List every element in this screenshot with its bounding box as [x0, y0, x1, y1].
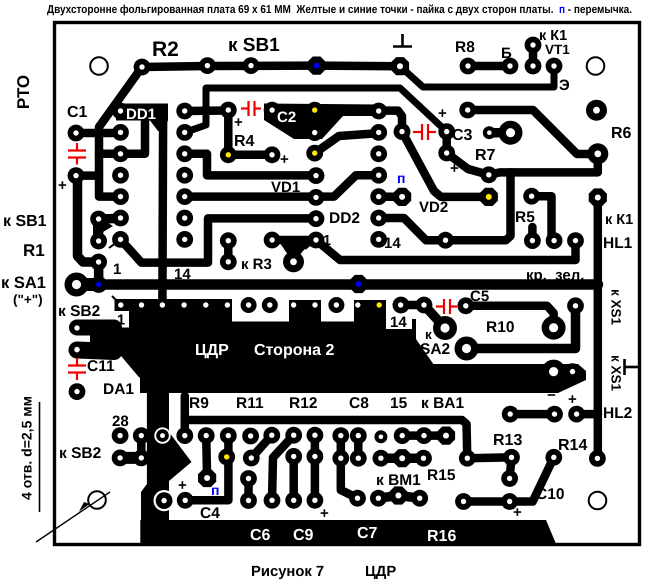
resistor R10 wire [467, 306, 576, 349]
pad DA1 pin21 [285, 427, 302, 444]
svg-text:28: 28 [112, 413, 129, 430]
pad R12 mid [285, 448, 302, 465]
svg-text:к R3: к R3 [241, 256, 272, 273]
resistor R4 vertical trace [224, 110, 233, 155]
wire R12 vertical b [311, 435, 320, 500]
pad C3 minus [438, 145, 455, 162]
pad к K1 hex [589, 188, 607, 206]
pad C1 plus [68, 167, 85, 184]
pad к SA2 big [433, 316, 457, 340]
svg-text:+: + [58, 177, 67, 194]
wire DD1 right pin y154 elbow to VD1 pad [185, 154, 316, 176]
svg-text:+: + [450, 160, 459, 177]
svg-text:14: 14 [384, 235, 401, 252]
pad in lobe [74, 347, 79, 352]
pad DD1 pin 4 [112, 167, 129, 184]
pad R11 b [243, 450, 260, 467]
wire DD1 triangle tail down to DA1 pad [158, 122, 167, 304]
white pocket for label 1 [115, 311, 130, 328]
pad VD2 yellow hex [480, 188, 498, 206]
pad DD1 pin 1 [112, 103, 129, 120]
pad C3 plus [438, 123, 455, 140]
pad C5 left [457, 297, 474, 314]
pad green wire [567, 232, 584, 249]
svg-text:к BM1: к BM1 [376, 472, 421, 489]
pad C9 b [285, 492, 302, 509]
pad HL1 net bottom [589, 450, 606, 467]
slab diagonal to band [416, 339, 434, 365]
wire DD1 pin to top bus y=88 to C3 [185, 88, 447, 132]
svg-text:R12: R12 [289, 395, 317, 412]
svg-text:−: − [547, 387, 556, 404]
svg-text:к К1: к К1 [605, 212, 633, 228]
wire DD1 pin14 to R4 top [185, 106, 229, 115]
svg-text:R6: R6 [611, 125, 632, 142]
pad SB2 c [133, 427, 150, 444]
pad R7 a [483, 126, 496, 139]
pad DA1 pin28 [112, 427, 129, 444]
pad DD2 pin 1 [370, 103, 387, 120]
capacitor C2 red symbol [241, 101, 261, 116]
pad red wire [524, 232, 541, 249]
svg-text:R10: R10 [486, 319, 514, 336]
svg-text:SA2: SA2 [420, 341, 450, 358]
svg-text:Э: Э [559, 77, 570, 94]
pad DD2 pin 6 [370, 210, 387, 227]
svg-text:к XS1: к XS1 [609, 355, 624, 392]
capacitor C3 vertical trace [442, 132, 451, 153]
svg-text:R13: R13 [493, 432, 522, 449]
dimension arrow to mounting hole [36, 492, 110, 542]
pad HL2 minus a [502, 406, 519, 423]
pad on rail [437, 232, 454, 249]
fill к R3 big pad triangle [280, 243, 310, 258]
wire C1 plus rail down to SA1 [78, 176, 99, 262]
pad HL b in band [564, 363, 581, 380]
pad C4 yellow [218, 449, 235, 466]
svg-text:R15: R15 [427, 467, 456, 484]
pad R3 top [220, 232, 237, 249]
ground symbol top [393, 34, 412, 47]
pad C8 bot a [332, 450, 349, 467]
pad C10 a [455, 493, 472, 510]
pad emitter [546, 58, 563, 75]
wire DD2 pin1 elbow to via pad [381, 111, 402, 132]
capacitor C11 red symbol [68, 358, 86, 380]
resistor R3 vertical trace [224, 241, 233, 262]
pad DD1 pin 2 [112, 124, 129, 141]
pad HL2 minus b [546, 406, 563, 423]
svg-text:+: + [438, 105, 447, 122]
capacitor C5 red symbol [436, 299, 457, 314]
pad SA2 b [416, 297, 433, 314]
pad DD1 pin 7 [112, 231, 129, 248]
slab band bottom right [416, 364, 586, 393]
pad DD1 pin 14 [176, 103, 193, 120]
capacitor C6 legs [244, 479, 253, 501]
pad к SB2 top hole [74, 325, 79, 330]
pad SB1 a [199, 57, 216, 74]
svg-text:14: 14 [174, 266, 191, 283]
pad R1 b [90, 254, 107, 271]
wire DD1 blob down to pin y154 [121, 119, 145, 154]
pad R7 big [499, 121, 523, 145]
svg-text:R7: R7 [475, 147, 496, 164]
wire DD1 pin7 to VD1 pad y218 [121, 218, 317, 262]
pad C7 a [349, 490, 366, 507]
pad DA1 pin 9 [291, 302, 296, 307]
svg-text:C4: C4 [200, 505, 220, 522]
pad R14 bottom [545, 449, 562, 466]
svg-text:1: 1 [117, 313, 125, 329]
resistor R15 cluster [381, 453, 424, 463]
svg-text:+: + [320, 505, 329, 522]
pad R5 top [523, 188, 540, 205]
pad DA1 pin 13 [377, 302, 382, 307]
svg-text:R9: R9 [189, 395, 209, 412]
pad DA1 pin 1 [118, 302, 123, 307]
svg-text:("+"): ("+") [13, 292, 43, 307]
capacitor C10 wire [464, 457, 554, 501]
wire к BM1 pads [378, 496, 419, 499]
pad DD1 pin 12 [176, 145, 193, 162]
svg-text:C11: C11 [87, 358, 115, 375]
wire к SB2 fat trace lower [77, 350, 114, 352]
svg-text:к: к [425, 327, 432, 342]
pad DA1 pin 8 [262, 297, 278, 313]
pad C8 top a [332, 427, 349, 444]
pad HL2 plus [568, 406, 585, 423]
wire branch to DD1 pin [99, 150, 121, 159]
thin tick above DA1 pin1 [112, 296, 119, 303]
wire R8 pad to R6 pad diagonal [468, 110, 598, 154]
pad DD2 pin 4 [370, 167, 387, 184]
wire к SB1 top row [142, 66, 400, 67]
svg-text:к SB2: к SB2 [59, 445, 101, 462]
pad R15 b [415, 450, 432, 467]
svg-text:C2: C2 [277, 109, 296, 126]
capacitor C3 red symbol [413, 124, 436, 140]
pad к BA1 hex [437, 427, 455, 445]
pad DA1 pin 5 [203, 302, 208, 307]
pad DD1 pin 11 [176, 167, 193, 184]
capacitor C8 leg b [354, 436, 363, 459]
pad C6 top [240, 470, 257, 487]
wire к SA2 pads [401, 301, 424, 310]
wire via pad diagonal to VD2 yellow hex [402, 132, 489, 197]
wire diag R11 [251, 435, 271, 458]
pad C1 top [68, 125, 85, 142]
svg-text:C9: C9 [293, 527, 314, 544]
pad VD2 top [480, 166, 497, 183]
pad R4 top [220, 102, 237, 119]
pad R4 bottom yellow [220, 146, 237, 163]
capacitor C1 red symbol [68, 143, 86, 165]
wire R12 vertical [289, 456, 298, 500]
wire DA1 pin15 to BA1 hex [402, 431, 446, 440]
pad BM1 a [370, 490, 387, 507]
pad DA1 pin 3 [160, 302, 165, 307]
pad SA1 big [65, 273, 89, 297]
pad C10 b [501, 493, 518, 510]
svg-text:DA1: DA1 [103, 381, 134, 398]
slab left column down to bar [141, 390, 192, 521]
svg-text:C3: C3 [452, 127, 473, 144]
pad DD1 pin 8 [176, 231, 193, 248]
resistor R13 top wire [510, 410, 554, 419]
pad BA1 a [416, 427, 433, 444]
capacitor C8 leg a [341, 436, 358, 499]
svg-text:HL2: HL2 [603, 405, 632, 422]
fill SA1 pads blob [77, 278, 99, 291]
wire C1 plus stub [76, 171, 99, 180]
pad C8 top b [350, 427, 367, 444]
op-amp DD1 body blob [116, 104, 168, 121]
svg-text:HL1: HL1 [603, 235, 633, 252]
ground symbol right side [625, 359, 639, 375]
pad DA1 pin 7 [241, 297, 257, 313]
slab tab1 [289, 300, 321, 330]
svg-text:C1: C1 [67, 104, 88, 121]
svg-text:R1: R1 [23, 241, 45, 260]
wire C1 top to DD1 [76, 129, 121, 138]
svg-text:кр. зел.: кр. зел. [526, 267, 584, 284]
svg-text:к SB1: к SB1 [228, 35, 280, 56]
mounting hole top-left [90, 57, 108, 75]
pad R10 top [567, 297, 584, 314]
pad DD2 pin 3 [370, 145, 387, 162]
mounting hole bottom-left [88, 491, 106, 509]
pad C2 left [264, 102, 281, 119]
pad R3 bottom [220, 253, 237, 270]
pad DA1 pin15 net [394, 427, 411, 444]
pad DD1 pin 9 [176, 210, 193, 227]
svg-text:DD1: DD1 [126, 106, 156, 123]
svg-text:к BA1: к BA1 [421, 395, 464, 412]
pad R12 mid b [307, 448, 324, 465]
pad к BM1 hex [389, 486, 407, 504]
wire DD2 pin to rail up right side [382, 154, 598, 240]
svg-text:п: п [397, 170, 405, 186]
pad R1 a [90, 233, 107, 250]
svg-text:R14: R14 [558, 437, 587, 454]
svg-text:к SB1: к SB1 [3, 213, 47, 230]
pad DA1 pin25 [198, 427, 215, 444]
svg-text:R11: R11 [236, 395, 264, 412]
pad R9 net [459, 450, 476, 467]
wire R4 to VD1 pad [228, 151, 272, 160]
capacitor C2 body blob [264, 104, 380, 140]
pad C8 bot b [350, 450, 367, 467]
wire к SB2 fat trace upper [77, 320, 114, 336]
svg-text:R2: R2 [152, 38, 179, 61]
pad below DA1 [69, 383, 86, 400]
svg-text:R16: R16 [427, 528, 456, 545]
resistor R13 vertical [510, 457, 512, 478]
pad R8 net [459, 102, 476, 119]
svg-text:C8: C8 [349, 395, 369, 412]
pad R5 bottom [546, 232, 563, 249]
pad SB2 blob b [133, 450, 150, 467]
wire к SB2 lower cluster [137, 436, 146, 458]
svg-text:R8: R8 [455, 39, 475, 56]
pad DA1 pin27 in cutout [156, 429, 169, 442]
svg-text:к XS1: к XS1 [609, 289, 624, 326]
pad DA1 pin 12 [355, 302, 360, 307]
pad DA1 pin 10 [312, 302, 317, 307]
pad SB1 b [243, 57, 260, 74]
pad SB1 left [90, 211, 107, 228]
pad R6 top [586, 100, 607, 121]
slab tab2 [354, 300, 386, 330]
pad DA1 pin 4 [181, 302, 186, 307]
pad bus blue hex [350, 275, 368, 293]
fill к SB1 Y junction blob [99, 214, 120, 224]
svg-text:РТО: РТО [14, 75, 33, 109]
pad DD1 pin 13 [176, 124, 193, 141]
svg-text:Сторона 2: Сторона 2 [254, 342, 335, 359]
wire C3 minus to VD2 pad [447, 153, 489, 175]
pad R15 a [373, 450, 390, 467]
pad DA1 pin22 [263, 427, 280, 444]
svg-text:Рисунок 7: Рисунок 7 [251, 564, 324, 580]
wire R2 diagonal and left vertical [99, 67, 142, 197]
wire R3 row to pad 1 [272, 236, 316, 245]
white pocket C11 DA1 [88, 354, 140, 394]
svg-text:VD1: VD1 [271, 179, 300, 196]
wire C2 yellow pad to DD2 pin2 [315, 133, 379, 154]
pad VD1 a [264, 146, 281, 163]
svg-text:к SB2: к SB2 [58, 303, 100, 320]
pad DD1 pin 10 [176, 188, 193, 205]
stub above red pad [528, 227, 537, 241]
pad SB1 blue via [308, 57, 326, 75]
mounting hole top-right [587, 57, 605, 75]
pad C4 left [177, 492, 194, 509]
pad C5 big [542, 316, 566, 340]
fill SB2 lobe right [90, 330, 115, 352]
svg-text:C7: C7 [357, 525, 378, 542]
pad DA1 pin23 [242, 428, 259, 445]
wire DA1 pin to BM hex [202, 436, 211, 478]
wire DD1 pin to DD2 pin via jog [185, 175, 379, 196]
pad R8 b [502, 58, 519, 75]
pad jumper п left [393, 188, 411, 206]
pad DD2 pin 7 [370, 231, 387, 248]
pad VD1 yellow [306, 145, 323, 162]
wire HL1 long vertical [594, 198, 603, 459]
pad R2 [134, 59, 151, 76]
svg-text:+: + [178, 477, 187, 494]
pad DA1 pin 14 [393, 297, 409, 313]
svg-text:+: + [234, 114, 243, 131]
svg-text:DD2: DD2 [329, 210, 360, 227]
resistor R9 long wire [181, 396, 190, 436]
pad R13 top [503, 449, 520, 466]
svg-text:+: + [513, 504, 522, 521]
svg-text:R4: R4 [234, 133, 255, 150]
wire ground bus y284 [99, 279, 598, 290]
wire emitter net (hex pad to Э pad) [400, 66, 554, 87]
pad к R3 big [283, 251, 304, 272]
svg-text:к SA1: к SA1 [1, 274, 46, 292]
svg-text:C5: C5 [470, 288, 489, 305]
wire VD2 pad join rail [489, 172, 512, 174]
pad DA1 pin 6 [225, 302, 230, 307]
wire R5 elbow [532, 196, 555, 240]
thin tail at DD1 pin7 [109, 239, 121, 248]
svg-text:п: п [211, 482, 219, 498]
pad cutout DA1 pin27 [154, 427, 170, 443]
pad R15 hex [393, 449, 411, 467]
pad via VD2 [394, 123, 411, 140]
pad SA2 a [393, 297, 410, 314]
pad DD1 pin 5 [112, 188, 129, 205]
bottom bar R16 [140, 520, 556, 544]
svg-text:Двухсторонне фольгированная пл: Двухсторонне фольгированная плата 69 x 6… [47, 4, 632, 16]
pad R13 bottom [501, 470, 518, 487]
pad small [374, 430, 387, 443]
pad DD2 pin 2 [370, 124, 387, 141]
pad R8 a [460, 58, 477, 75]
wire HL2 plus pad to vertical [577, 410, 598, 419]
svg-text:ЦДР: ЦДР [365, 564, 396, 580]
resistor R8 trace [468, 62, 510, 71]
pad C9 a [264, 492, 281, 509]
wire R9 horizontal [185, 420, 468, 458]
svg-text:+: + [568, 391, 577, 408]
wire R9 pad to R13 pad [467, 453, 511, 462]
pad DD2 pin1 net [308, 232, 325, 249]
svg-text:15: 15 [390, 395, 408, 412]
svg-text:Б: Б [501, 45, 512, 62]
pad R10 big [455, 337, 479, 361]
pad DD1 pin 3 [112, 145, 129, 162]
svg-text:14: 14 [390, 314, 407, 331]
pad DA1 pin26 [176, 427, 193, 444]
svg-text:ЦДР: ЦДР [195, 342, 229, 359]
pad DA1 pin20 [307, 427, 324, 444]
svg-text:C6: C6 [250, 527, 271, 544]
pad DD2 wire a [264, 232, 281, 249]
pad DA1 pin 11 [328, 297, 344, 313]
pad BM1 b [411, 490, 428, 507]
pad hole in lobe [74, 347, 79, 352]
pad C2 bottom [306, 124, 323, 141]
pad HL big in band [542, 360, 566, 384]
pad R6 bottom [587, 143, 608, 164]
pad DD2 pin 5 [370, 188, 387, 205]
svg-text:VT1: VT1 [545, 42, 570, 57]
pad C9 c [307, 492, 324, 509]
pad node emitter hex [391, 57, 409, 75]
svg-text:4 отв. d=2,5 мм: 4 отв. d=2,5 мм [19, 396, 35, 500]
pad VD1 b [308, 167, 325, 184]
slab right part [354, 319, 416, 393]
pad C6 bot [240, 492, 257, 509]
capacitor C4 wire up to DA1 pin [185, 436, 229, 501]
wire jumper pad to DD2 pin [382, 192, 402, 201]
pad DA1 pin24 [220, 427, 237, 444]
pad K1 base top [525, 37, 542, 54]
pad mid b [308, 210, 325, 227]
mounting hole bottom-right [589, 492, 607, 510]
pad SA1 blue [90, 276, 107, 293]
resistor R7 connecting bar [489, 128, 510, 138]
pad SB2 blob a [112, 450, 129, 467]
pad in column with white ring [154, 490, 175, 511]
svg-text:1: 1 [113, 261, 121, 278]
